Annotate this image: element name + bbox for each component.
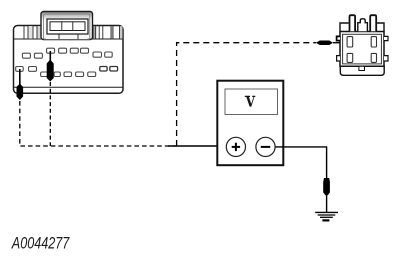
connector C1 top ribs left bbox=[24, 26, 42, 39]
probe terminal T2 in pin C1-2 bbox=[17, 69, 24, 100]
wire W2 dashed from T2 down and right to voltmeter bbox=[20, 101, 177, 146]
connector C2 pin slots bbox=[347, 37, 376, 63]
probe terminal T1 in pin C1-1 bbox=[47, 51, 54, 82]
connector C2 center key bbox=[358, 19, 368, 32]
connector C1 body bbox=[14, 26, 124, 94]
voltmeter plus terminal bbox=[226, 137, 245, 156]
svg-text:A0044277: A0044277 bbox=[11, 235, 70, 253]
terminal T3 on wire W4 bbox=[316, 41, 347, 46]
connector C2 body bbox=[340, 23, 384, 75]
ground symbol GND bbox=[315, 212, 338, 220]
connector C2 side tabs bbox=[337, 36, 388, 61]
connector C1 latch bbox=[41, 12, 93, 40]
wire W6 terminal to ground bbox=[326, 196, 328, 212]
wire W1 dashed from T1 down bbox=[49, 82, 51, 146]
connector C1 pin row 2 bbox=[16, 67, 118, 77]
wire W3 solid into voltmeter plus bbox=[168, 145, 227, 147]
wire W4 dashed up and right to connector C2 bbox=[177, 43, 316, 146]
voltmeter M1 bbox=[217, 81, 283, 166]
voltmeter minus terminal bbox=[256, 137, 275, 156]
connector C1 pin row 1 bbox=[22, 48, 112, 58]
connector C1 top ribs right bbox=[92, 26, 123, 39]
terminal T4 on ground wire bbox=[323, 178, 330, 197]
wire W5 from minus to ground bbox=[275, 147, 327, 179]
connector C2 latch prongs bbox=[350, 15, 377, 31]
